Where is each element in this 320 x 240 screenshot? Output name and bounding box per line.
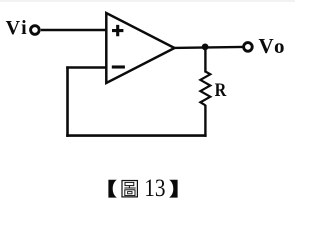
svg-text:Vo: Vo bbox=[259, 34, 287, 58]
junction output node bbox=[202, 44, 209, 51]
caption right lenticular bracket bbox=[169, 180, 177, 198]
terminal Vi bbox=[31, 26, 40, 35]
op-amp minus (inverting) input mark bbox=[112, 65, 125, 68]
terminal Vo bbox=[244, 43, 253, 52]
svg-text:13: 13 bbox=[144, 175, 165, 203]
wire feedback bottom run bbox=[66, 134, 206, 137]
wire feedback left riser bbox=[66, 66, 69, 136]
wire resistor R bottom to feedback bbox=[204, 105, 206, 137]
op-amp U1 bbox=[106, 13, 174, 83]
op-amp plus (non-inverting) input mark bbox=[112, 25, 123, 36]
wire non-inverting input from Vi terminal bbox=[41, 29, 107, 32]
wire feedback to inverting input bbox=[66, 66, 106, 69]
resistor R bbox=[200, 72, 210, 106]
caption character 圖 (figure) bbox=[122, 181, 137, 197]
caption left lenticular bracket bbox=[108, 180, 116, 198]
wire junction to resistor R top bbox=[204, 47, 206, 73]
svg-text:Vi: Vi bbox=[6, 17, 29, 39]
svg-text:R: R bbox=[215, 79, 227, 101]
wire op-amp output bbox=[174, 47, 243, 48]
